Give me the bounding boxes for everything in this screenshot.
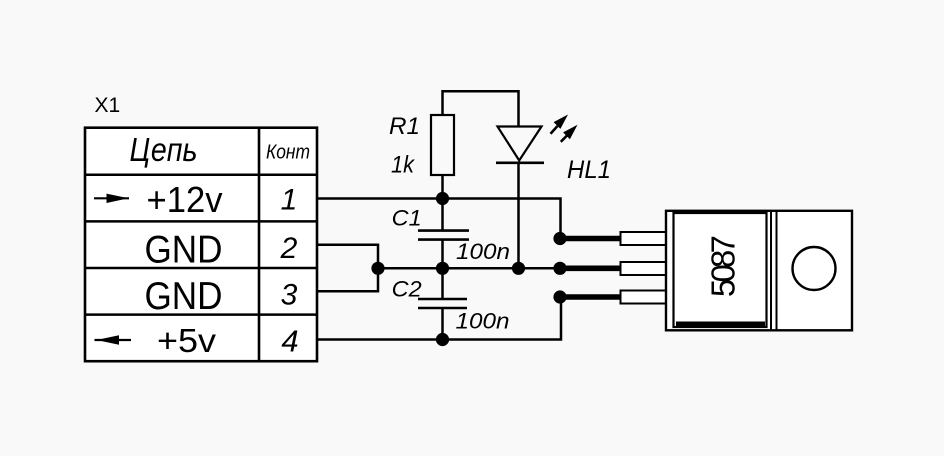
svg-text:+12v: +12v: [147, 179, 223, 220]
svg-text:5087: 5087: [705, 236, 742, 297]
svg-text:C1: C1: [392, 206, 422, 231]
svg-text:HL1: HL1: [567, 156, 611, 184]
svg-text:R1: R1: [389, 113, 420, 140]
svg-text:4: 4: [281, 324, 298, 359]
svg-text:1: 1: [281, 184, 298, 217]
svg-text:+5v: +5v: [157, 322, 217, 359]
svg-text:GND: GND: [145, 229, 223, 272]
svg-text:Цепь: Цепь: [130, 131, 198, 168]
svg-text:Конт: Конт: [266, 141, 310, 164]
svg-text:100n: 100n: [456, 309, 510, 334]
svg-text:X1: X1: [95, 94, 121, 117]
svg-text:GND: GND: [145, 275, 223, 318]
svg-text:1k: 1k: [391, 152, 416, 179]
svg-text:100n: 100n: [456, 239, 510, 264]
svg-text:C2: C2: [392, 277, 422, 302]
svg-text:3: 3: [281, 279, 298, 312]
svg-text:2: 2: [280, 232, 298, 265]
